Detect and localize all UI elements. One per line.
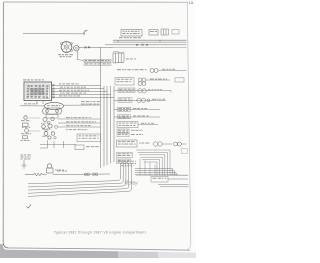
svg-text:Typical 1981 through 1987 V8 e: Typical 1981 through 1987 V8 engine comp…: [54, 231, 146, 235]
svg-text:Relay: Relay: [125, 181, 139, 187]
svg-text:111: 111: [189, 1, 194, 5]
